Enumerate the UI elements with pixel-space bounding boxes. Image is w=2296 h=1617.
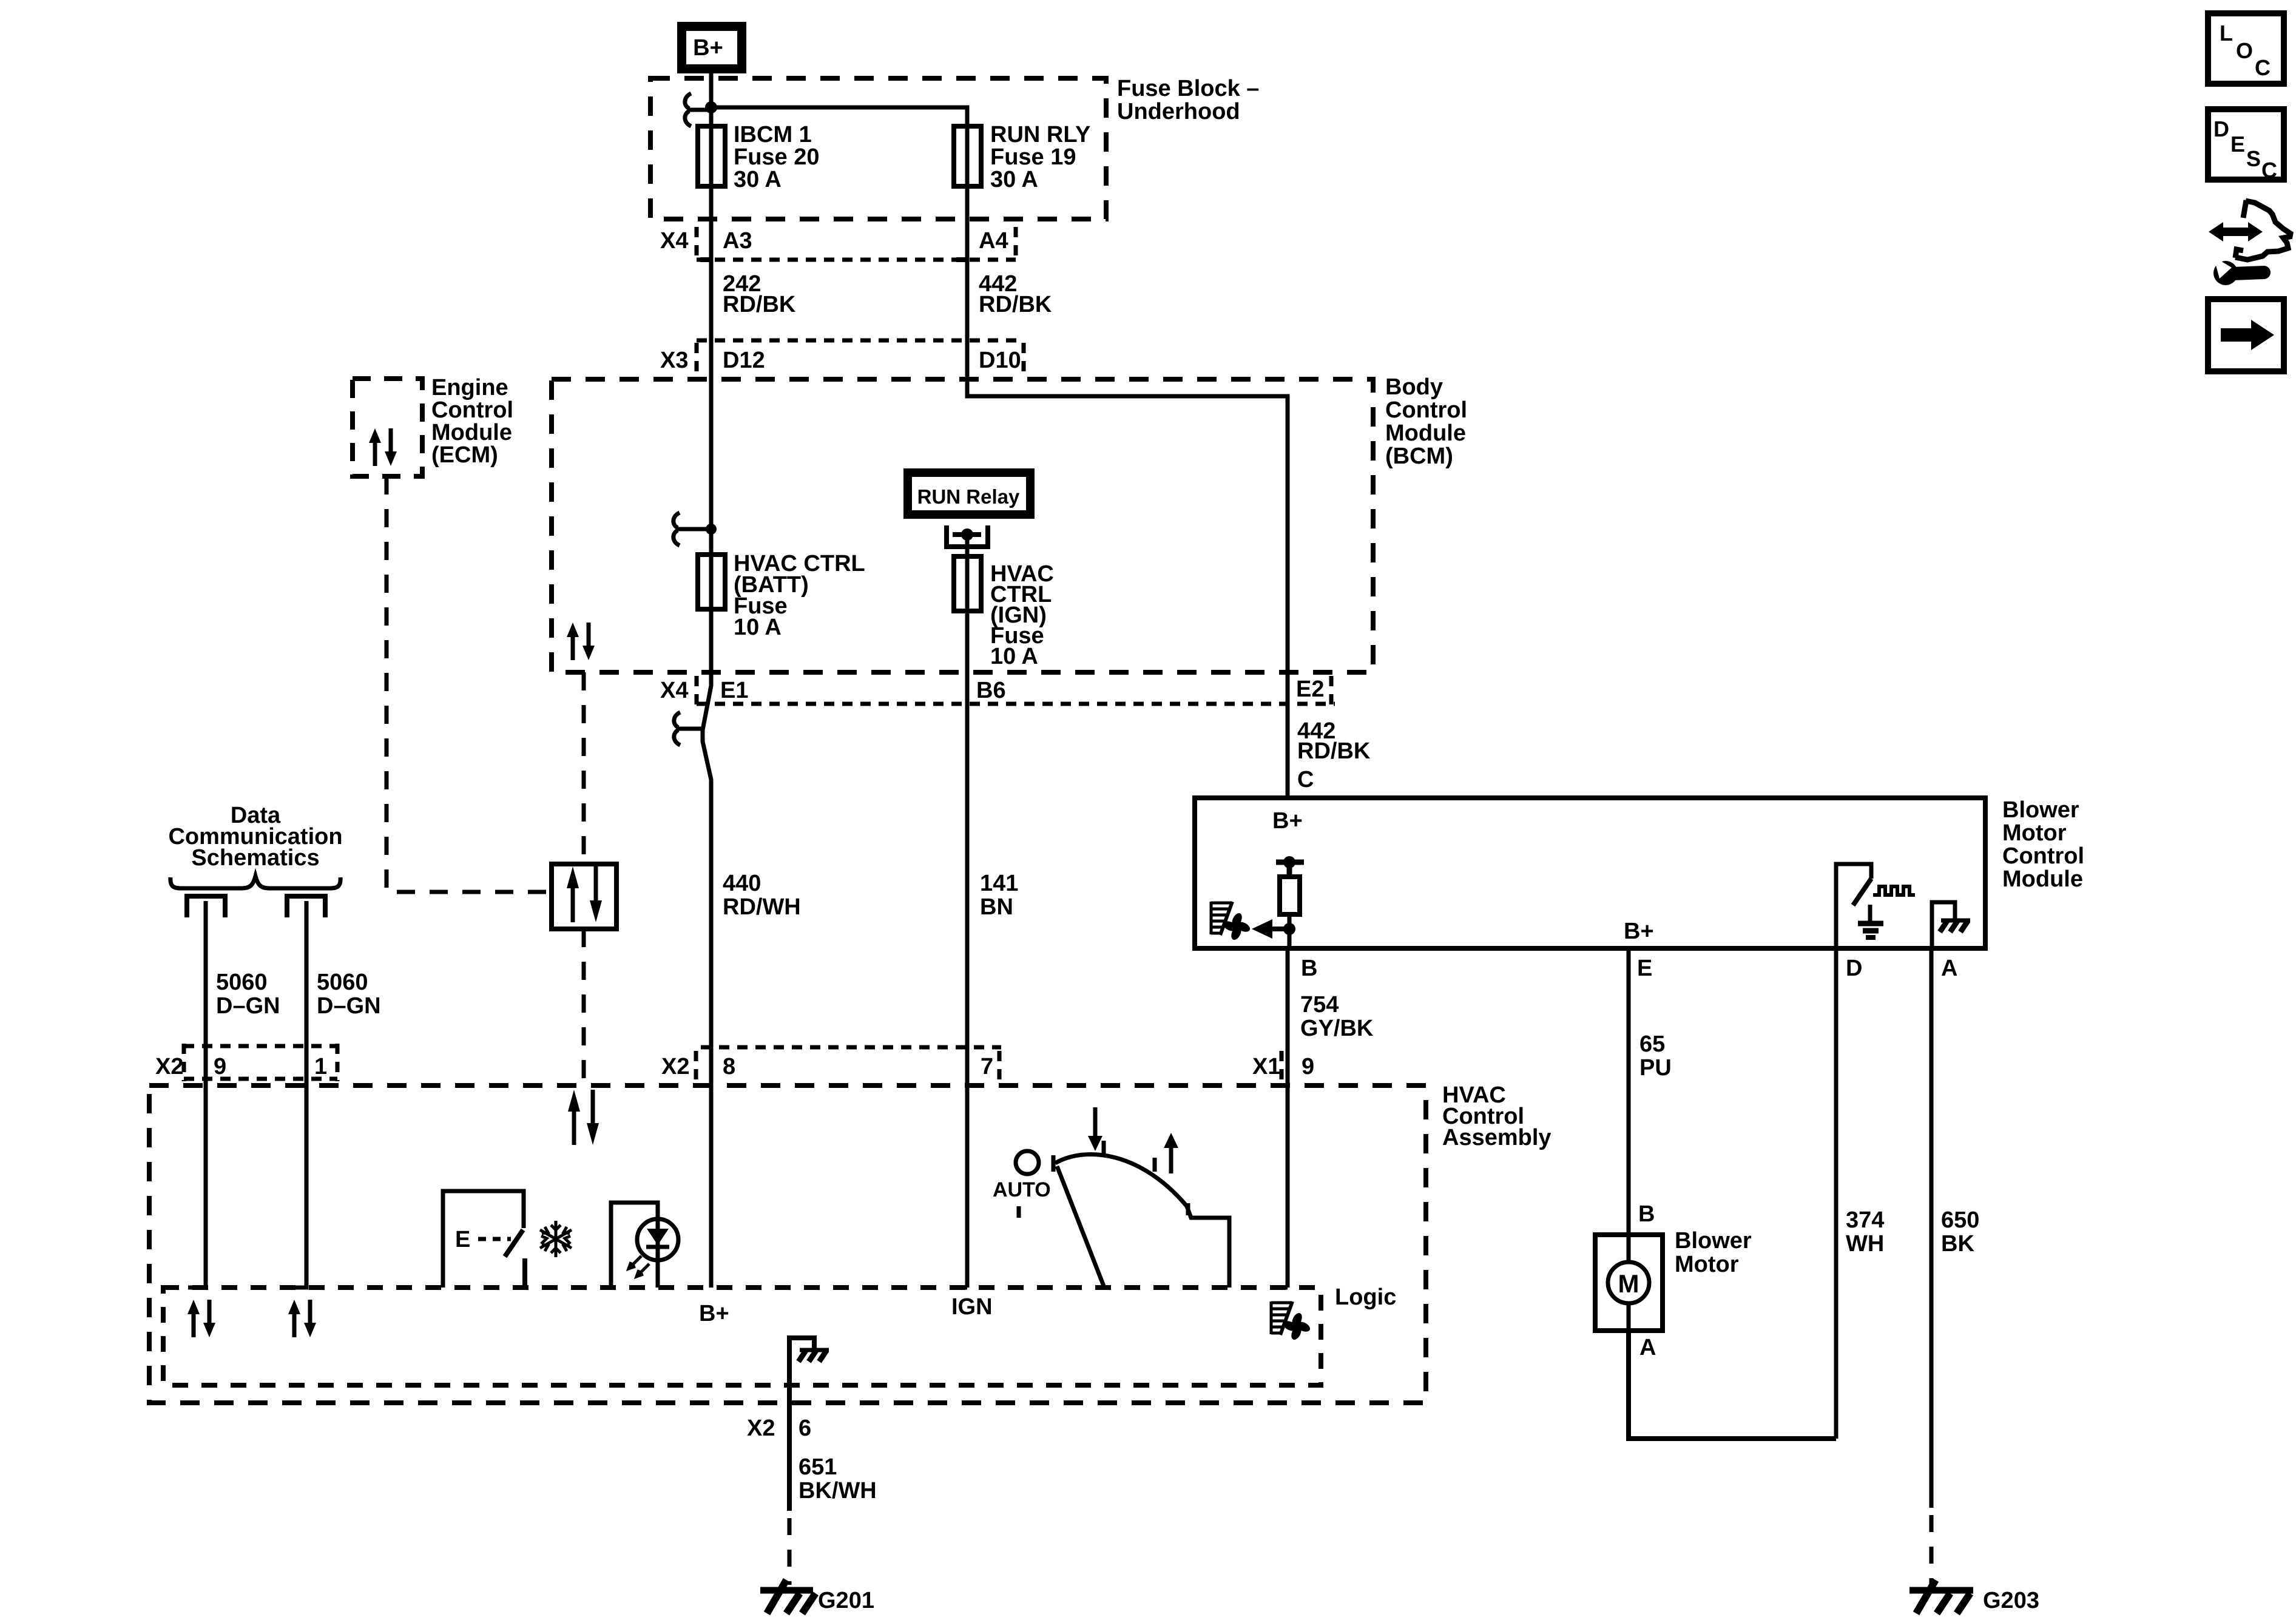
svg-text:Control: Control	[1385, 397, 1467, 423]
connector X2 row (8 7) on HVAC	[696, 1047, 1001, 1080]
svg-text:RD/BK: RD/BK	[723, 292, 796, 317]
blower speed fan icon in BMCM	[1211, 902, 1252, 942]
svg-text:X1: X1	[1252, 1054, 1280, 1079]
chassis ground inside Logic	[789, 1338, 814, 1348]
blower speed dial cam	[1055, 1154, 1187, 1206]
wire 650 BK pin A to G203	[1930, 948, 1934, 1508]
svg-text:Blower: Blower	[2002, 797, 2079, 823]
connector X3 row (D12 D10) of BCM	[697, 340, 1024, 376]
serial data arrows in BCM	[567, 623, 595, 660]
in-line connector to data bus (right)	[287, 896, 325, 917]
serial data arrows in interface box	[571, 887, 575, 922]
svg-text:WH: WH	[1846, 1231, 1884, 1257]
svg-text:GY/BK: GY/BK	[1300, 1016, 1374, 1041]
serial data arrows in ECM	[369, 428, 397, 466]
svg-text:E: E	[455, 1227, 470, 1252]
svg-text:AUTO: AUTO	[993, 1178, 1051, 1201]
HVAC Control Assembly dashed box	[149, 1085, 1426, 1403]
light arrows at photodiode	[630, 1256, 641, 1268]
node junction at B+ bus	[705, 101, 717, 113]
svg-text:650: 650	[1941, 1207, 1979, 1233]
svg-text:B6: B6	[976, 678, 1006, 703]
dial down arrow	[1093, 1107, 1098, 1137]
svg-text:A: A	[1941, 956, 1957, 981]
Engine Control Module dashed box	[353, 379, 422, 476]
svg-text:B+: B+	[1272, 808, 1303, 834]
svg-text:X3: X3	[660, 348, 688, 373]
photodiode D1	[637, 1219, 678, 1260]
svg-text:X4: X4	[660, 678, 688, 703]
connector clip at B+ bus	[685, 93, 691, 126]
fuse F19 RUN RLY 30A	[954, 126, 981, 186]
dial pointer wiper	[1057, 1166, 1104, 1288]
svg-text:Schematics: Schematics	[191, 845, 319, 871]
dial up arrow	[1169, 1147, 1173, 1173]
in-line connector to data bus (left)	[187, 896, 225, 917]
svg-text:G203: G203	[1983, 1588, 2039, 1613]
svg-text:5060: 5060	[216, 970, 268, 995]
svg-text:D: D	[2213, 116, 2229, 141]
node IGN pin 7 label	[950, 1286, 967, 1290]
PWM switch symbol at pin D in BMCM	[1836, 864, 1871, 948]
svg-text:X2: X2	[155, 1054, 183, 1079]
svg-text:A4: A4	[979, 228, 1008, 254]
svg-text:A3: A3	[723, 228, 752, 254]
icon car with double arrow and wrench	[2209, 200, 2291, 285]
wire 65 PU pin E to blower motor	[1627, 948, 1631, 1235]
connector X1 row (9) on HVAC	[1280, 1051, 1284, 1080]
svg-text:X2: X2	[661, 1054, 689, 1079]
power feed B+ box	[677, 22, 746, 73]
svg-text:Control: Control	[2002, 843, 2084, 869]
svg-text:L: L	[2220, 21, 2233, 46]
svg-text:D–GN: D–GN	[317, 993, 381, 1019]
svg-text:X4: X4	[660, 228, 688, 254]
svg-text:30 A: 30 A	[734, 167, 782, 192]
wire B+ feed to fuse block	[709, 73, 714, 672]
svg-text:10 A: 10 A	[990, 644, 1038, 669]
ground G203	[1909, 1587, 1973, 1594]
svg-text:Motor: Motor	[2002, 820, 2067, 846]
svg-text:O: O	[2236, 38, 2253, 63]
A/C request switch	[443, 1191, 524, 1288]
svg-text:7: 7	[981, 1054, 993, 1079]
serial data arrows in Logic (pin 1)	[288, 1300, 316, 1337]
svg-text:C: C	[2255, 55, 2271, 80]
svg-text:D: D	[1846, 956, 1862, 981]
svg-text:374: 374	[1846, 1207, 1884, 1233]
wire 374 WH pin D to blower motor return	[1834, 948, 1838, 1439]
svg-text:Fuse 19: Fuse 19	[990, 144, 1076, 170]
Body Control Module dashed box	[552, 379, 1373, 672]
svg-text:141: 141	[980, 871, 1018, 896]
svg-text:D–GN: D–GN	[216, 993, 280, 1019]
wire D10 to E2 inside BCM	[967, 379, 1288, 798]
svg-text:S: S	[2246, 146, 2261, 171]
relay contact of RUN Relay	[944, 525, 990, 547]
brace for data communication	[171, 876, 340, 888]
svg-text:5060: 5060	[317, 970, 368, 995]
node junction below resistor	[1283, 923, 1295, 935]
svg-text:C: C	[2261, 158, 2277, 183]
serial data wire 5060 D-GN (left)	[188, 901, 206, 1288]
Logic dashed box	[163, 1288, 1321, 1385]
fuse HVAC CTRL (IGN) 10A	[954, 556, 981, 611]
svg-text:Fuse Block –: Fuse Block –	[1117, 76, 1259, 101]
ground G201	[760, 1587, 813, 1594]
photo sensor loop	[611, 1203, 658, 1288]
connector X4 row (E1 B6 E2) under BCM	[697, 676, 1335, 705]
svg-text:RD/BK: RD/BK	[1297, 738, 1371, 764]
wire from relay to HVAC CTRL IGN fuse	[965, 538, 970, 1288]
svg-text:1: 1	[314, 1054, 327, 1079]
svg-text:BN: BN	[980, 894, 1013, 920]
svg-text:Module: Module	[1385, 420, 1466, 446]
icon box LOC	[2208, 13, 2284, 84]
signal ground in BMCM	[1868, 905, 1872, 922]
svg-text:RD/WH: RD/WH	[723, 894, 801, 920]
icon box DESC	[2208, 109, 2284, 180]
svg-text:B: B	[1638, 1201, 1655, 1227]
svg-text:IBCM 1: IBCM 1	[734, 122, 812, 147]
svg-text:65: 65	[1639, 1031, 1665, 1057]
snowflake A/C icon	[540, 1221, 572, 1257]
svg-text:IGN: IGN	[951, 1294, 993, 1320]
svg-text:G201: G201	[818, 1588, 874, 1613]
blower speed dial AUTO indicator	[1016, 1151, 1039, 1174]
fuse HVAC CTRL (BATT) 10A	[698, 555, 725, 609]
svg-text:B+: B+	[693, 35, 723, 61]
svg-text:Underhood: Underhood	[1117, 99, 1240, 124]
chassis ground at pin A in BMCM	[1932, 902, 1955, 948]
wire 754 GY/BK pin B to HVAC X1-9	[1286, 948, 1290, 1288]
svg-text:RUN Relay: RUN Relay	[917, 485, 1020, 508]
svg-text:651: 651	[799, 1454, 837, 1480]
svg-text:Body: Body	[1385, 374, 1443, 400]
serial data arrows in Logic (pin 9)	[187, 1300, 215, 1337]
svg-text:B+: B+	[1624, 919, 1654, 944]
fuse F20 IBCM 1 30A	[698, 126, 725, 186]
connector X4 row (A3 A4) of fuse block	[697, 227, 1016, 260]
svg-text:9: 9	[1302, 1054, 1314, 1079]
svg-text:E: E	[1637, 956, 1652, 981]
svg-text:Assembly: Assembly	[1442, 1125, 1551, 1150]
svg-text:Motor: Motor	[1675, 1252, 1739, 1277]
svg-text:D12: D12	[723, 348, 765, 373]
svg-text:10 A: 10 A	[734, 615, 782, 640]
serial data wire 5060 D-GN (right)	[289, 901, 306, 1288]
dashed serial data wire from ECM	[387, 476, 552, 892]
dashed serial data wire interface box to HVAC	[582, 929, 586, 1085]
svg-text:C: C	[1297, 767, 1314, 792]
wire blower motor A to BMCM pin D	[1629, 1331, 1836, 1439]
svg-text:Module: Module	[2002, 866, 2083, 892]
svg-text:Control: Control	[431, 397, 513, 423]
svg-text:RD/BK: RD/BK	[979, 292, 1052, 317]
connector clip below E1	[703, 672, 711, 1288]
svg-text:Logic: Logic	[1335, 1284, 1396, 1310]
serial data arrows inside HVAC	[572, 1110, 576, 1145]
svg-text:754: 754	[1300, 992, 1339, 1018]
svg-text:BK/WH: BK/WH	[799, 1478, 877, 1504]
svg-text:X2: X2	[747, 1416, 775, 1441]
icon box arrow	[2208, 299, 2284, 371]
serial data interface box	[552, 864, 616, 929]
svg-text:30 A: 30 A	[990, 167, 1038, 192]
resistor with supply tap in BMCM	[1283, 856, 1295, 868]
PWM pulse train glyph	[1873, 886, 1915, 895]
svg-text:B: B	[1301, 956, 1317, 981]
Blower Motor box	[1595, 1235, 1663, 1331]
svg-text:440: 440	[723, 871, 761, 896]
svg-text:8: 8	[723, 1054, 735, 1079]
connector X2 row (9 1) on HVAC	[184, 1044, 337, 1081]
svg-text:E2: E2	[1296, 677, 1324, 702]
wire bus to fuse 19	[711, 107, 967, 398]
blower motor M symbol	[1627, 1235, 1631, 1262]
svg-text:Fuse 20: Fuse 20	[734, 144, 820, 170]
dashed serial data wire BCM to interface box	[582, 672, 586, 864]
blower speed fan icon in Logic	[1271, 1301, 1312, 1342]
svg-text:RUN RLY: RUN RLY	[990, 122, 1090, 147]
svg-text:Engine: Engine	[431, 375, 508, 400]
svg-text:Blower: Blower	[1675, 1228, 1752, 1254]
svg-text:A: A	[1639, 1335, 1656, 1360]
arrow to blower speed icon	[1272, 927, 1289, 931]
Blower Motor Control Module box	[1195, 798, 1985, 948]
svg-text:9: 9	[214, 1054, 226, 1079]
svg-text:E: E	[2230, 132, 2245, 157]
svg-text:(ECM): (ECM)	[431, 442, 498, 468]
RUN Relay box	[903, 468, 1035, 519]
svg-text:PU: PU	[1639, 1055, 1672, 1081]
svg-text:Module: Module	[431, 420, 512, 445]
Fuse Block - Underhood dashed box	[650, 78, 1106, 219]
svg-text:D10: D10	[979, 348, 1021, 373]
svg-text:E1: E1	[720, 678, 748, 703]
svg-text:M: M	[1618, 1269, 1639, 1298]
svg-text:B+: B+	[699, 1301, 729, 1326]
ground wire 651 BK/WH to G201	[787, 1335, 792, 1511]
svg-text:(BCM): (BCM)	[1385, 444, 1453, 469]
svg-text:BK: BK	[1941, 1231, 1974, 1257]
svg-text:6: 6	[799, 1416, 811, 1441]
connector clip at HVAC CTRL BATT fuse	[706, 524, 717, 535]
